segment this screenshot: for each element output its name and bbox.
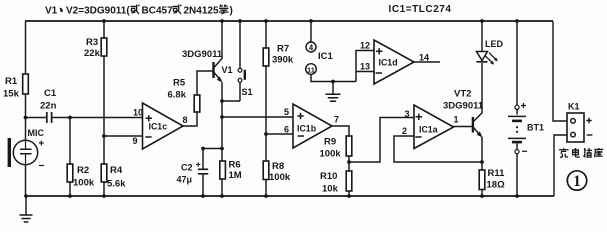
svg-text:390k: 390k [272,55,294,66]
svg-text:MIC: MIC [28,128,45,138]
node emitter/R11/feedback [480,160,484,164]
node emitter-S1 [220,99,224,103]
svg-text:8: 8 [183,115,188,125]
svg-text:2: 2 [402,126,407,136]
svg-text:5: 5 [284,107,289,117]
capacitor C2 [177,147,223,198]
wire left rail R1/MIC column [25,21,27,196]
caption V1 V2 types [45,5,233,17]
resistor R6 [220,160,242,198]
op-amp IC1d [360,40,429,84]
transistor V1 [182,49,233,83]
svg-text:R2: R2 [77,165,89,176]
svg-text:C2: C2 [181,163,193,173]
svg-text:11: 11 [307,65,315,74]
wire V+ right drop to K1 + [553,21,567,121]
wire pin6 [266,133,293,135]
svg-text:): ) [230,6,233,17]
resistor R8 [263,134,291,198]
wire pin9 [104,135,143,137]
wire VT2 emitter down [481,137,483,196]
resistor R2 [67,118,95,198]
ground IC1 [326,80,341,102]
svg-text:1: 1 [573,173,581,190]
svg-text:R8: R8 [272,161,284,172]
wire GND right rise to K1 - [554,135,567,196]
pin 11 circle [306,64,317,75]
svg-text:10: 10 [133,108,143,118]
svg-text:IC1d: IC1d [379,58,398,68]
wire pin14 stub [414,61,440,63]
svg-text:IC1c: IC1c [149,122,168,132]
svg-text:1M: 1M [229,170,242,181]
svg-text:6.8k: 6.8k [168,90,187,101]
svg-text:IC1=TLC274: IC1=TLC274 [389,4,452,15]
wire GND bottom rail [26,195,554,197]
resistor R1 [3,74,28,100]
wire IC1b out to R9 [332,126,349,136]
svg-text:V1: V1 [222,65,233,75]
op-amp IC1b [284,104,339,148]
svg-text:IC1: IC1 [318,51,334,62]
svg-text:BT1: BT1 [527,123,544,133]
capacitor C1 [26,88,143,123]
label charging socket [559,148,603,158]
svg-text:R1: R1 [5,76,18,87]
svg-text:V2=3DG9011(: V2=3DG9011( [66,6,130,17]
resistor R7 [263,19,294,134]
wire divider to pin3 [349,118,414,163]
resistor R3 [84,19,107,196]
svg-text:3DG9011: 3DG9011 [443,101,484,112]
svg-text:4: 4 [309,43,314,52]
svg-text:BC457: BC457 [142,6,174,17]
svg-text:VT2: VT2 [454,89,471,100]
svg-text:9: 9 [133,136,138,146]
microphone MIC [8,128,45,167]
battery BT1 [508,19,544,198]
transistor VT2 [443,89,484,138]
wire VT2 collector up [481,63,483,114]
svg-text:10k: 10k [322,184,339,195]
node emitter-C2 [220,147,224,151]
node R3/R4 to pin9 [102,134,106,138]
svg-text:R5: R5 [173,78,186,89]
op-amp IC1a [402,105,459,149]
svg-text:R11: R11 [488,168,506,179]
node C1/R1/MIC junction [24,116,28,120]
svg-text:R3: R3 [86,37,98,48]
LED [477,19,504,65]
svg-text:100k: 100k [73,178,95,189]
svg-text:6: 6 [284,125,289,135]
wire V1 collector [220,19,224,59]
svg-text:R6: R6 [229,160,241,171]
svg-text:R10: R10 [320,171,337,182]
wire pins 12/13 tie [356,51,374,82]
resistor R5 [168,78,200,113]
label IC1 [318,51,334,62]
wire IC1a out to VT2 base [454,126,472,128]
resistor R10 [320,171,352,198]
svg-text:2N4125: 2N4125 [184,6,219,17]
pin 4 circle [306,42,316,52]
resistor R11 [479,168,505,198]
node emitter-pin5 [220,115,224,119]
wire emitter to pin5 [222,116,293,118]
resistor R9 [320,136,352,196]
svg-text:LED: LED [485,39,504,49]
svg-text:5.6k: 5.6k [107,179,126,190]
circled number 1 [567,171,586,190]
svg-text:S1: S1 [242,87,253,97]
switch S1 [222,19,253,101]
svg-text:18Ω: 18Ω [487,180,506,191]
wire feedback pin2 [394,136,482,162]
svg-text:15k: 15k [3,89,20,100]
svg-text:22k: 22k [84,48,101,59]
resistor R4 [101,164,126,198]
svg-text:R7: R7 [277,44,289,55]
wire V+ top rail [25,20,553,22]
svg-text:13: 13 [360,62,370,72]
svg-text:14: 14 [419,53,429,63]
svg-text:1: 1 [454,115,459,125]
svg-text:IC1b: IC1b [297,124,317,134]
node R9/R10 [347,160,351,164]
svg-text:3DG9011: 3DG9011 [182,49,223,60]
svg-text:3: 3 [405,109,410,119]
wire pin11 to ground [311,74,356,81]
svg-text:22n: 22n [40,101,57,112]
wire pin4 tap [309,19,313,42]
wire V1 emitter column [221,83,223,197]
svg-text:K1: K1 [568,102,580,112]
socket K1 [567,102,592,143]
svg-text:100k: 100k [320,149,342,160]
svg-text:47μ: 47μ [177,175,193,185]
op-amp IC1c [133,103,188,149]
svg-text:R4: R4 [110,165,123,176]
svg-text:R9: R9 [324,137,336,148]
svg-text:7: 7 [334,115,339,125]
svg-text:100k: 100k [269,172,291,183]
svg-text:12: 12 [360,41,370,51]
ground left [20,194,33,222]
caption IC1 type [389,4,452,15]
svg-text:IC1a: IC1a [419,125,438,135]
node R7/R8 pin6 [264,132,268,136]
node R2 top tap [68,116,72,120]
wire pin8 to R5 to V1 base [183,71,213,126]
svg-text:V1: V1 [45,6,58,17]
svg-text:C1: C1 [44,88,57,99]
